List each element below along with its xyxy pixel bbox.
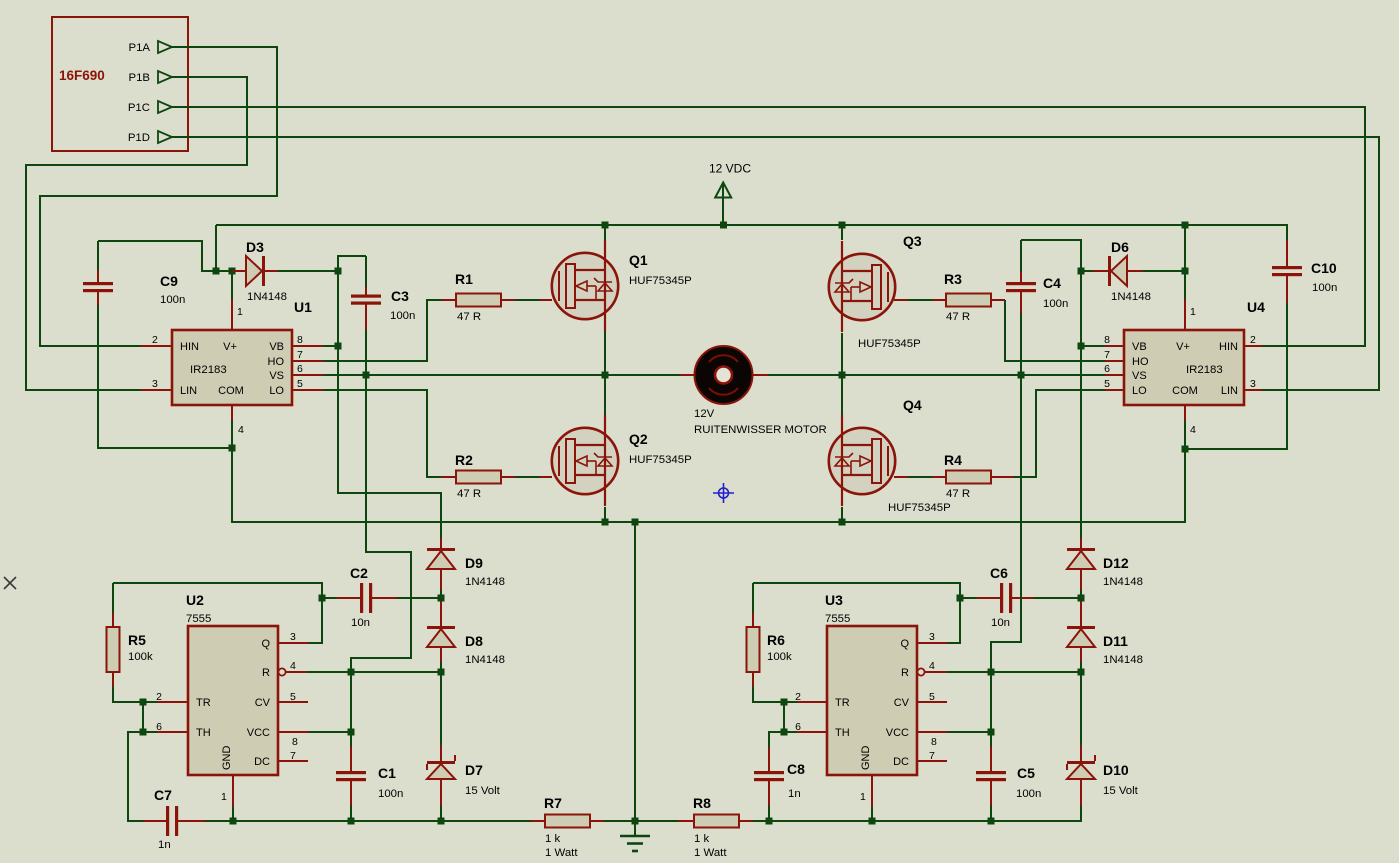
diode D9 1N4148 xyxy=(440,538,442,549)
resistor R2 47R xyxy=(441,476,456,478)
wire U1 COM down xyxy=(231,420,233,448)
svg-text:1 k: 1 k xyxy=(694,833,709,845)
svg-text:7555: 7555 xyxy=(186,613,211,625)
svg-text:7: 7 xyxy=(929,750,935,762)
svg-text:D11: D11 xyxy=(1103,633,1128,649)
motor 12V RUITENWISSER MOTOR xyxy=(680,374,694,376)
svg-text:100n: 100n xyxy=(1312,282,1337,294)
junction bottom rail / C1 xyxy=(348,818,355,825)
wire VB right node down to D12 xyxy=(1080,346,1082,538)
junction TR node xyxy=(140,699,147,706)
svg-text:C4: C4 xyxy=(1043,275,1061,291)
zener diode D10 15 Volt xyxy=(1080,745,1082,762)
svg-text:4: 4 xyxy=(929,660,935,672)
resistor R5 100k xyxy=(112,583,114,613)
junction COM node right xyxy=(1182,446,1189,453)
wire D8 anode to reset row xyxy=(440,662,442,672)
capacitor C8 1n xyxy=(768,748,770,772)
svg-text:C5: C5 xyxy=(1017,765,1035,781)
svg-text:8: 8 xyxy=(1104,334,1110,346)
U2 pin 4 R bubble and stub xyxy=(278,668,285,675)
wire R4 right to LO corner xyxy=(1014,390,1105,477)
wire supply node vertical xyxy=(350,658,352,732)
diode D11 1N4148 xyxy=(1080,602,1082,627)
wire U2 GND to bottom rail xyxy=(232,807,234,821)
svg-text:1n: 1n xyxy=(788,788,801,800)
svg-text:LIN: LIN xyxy=(180,385,197,397)
svg-text:8: 8 xyxy=(297,334,303,346)
wire Q3 source to motor node B xyxy=(841,333,843,375)
svg-text:U1: U1 xyxy=(294,299,312,315)
U3 pin 3 Q stub xyxy=(917,642,947,644)
U3 pin 1 GND stub xyxy=(871,775,873,807)
wire D6 anode to V+ branch xyxy=(1143,270,1185,272)
U3 pin 8 VCC stub xyxy=(917,731,947,733)
wire U3 reset row xyxy=(947,671,1081,673)
svg-text:47 R: 47 R xyxy=(457,311,481,323)
svg-text:Q4: Q4 xyxy=(903,397,922,413)
svg-text:16F690: 16F690 xyxy=(59,68,105,83)
svg-text:1: 1 xyxy=(221,791,227,803)
wire D3 cathode to VB node xyxy=(278,270,338,272)
svg-text:D12: D12 xyxy=(1103,555,1129,571)
wire VS branch down to 7555 supply xyxy=(351,375,411,672)
svg-text:4: 4 xyxy=(238,424,244,436)
Q1 gate stub xyxy=(540,299,552,301)
junction bottom rail / C8 xyxy=(766,818,773,825)
svg-text:8: 8 xyxy=(931,736,937,748)
svg-text:10n: 10n xyxy=(351,617,370,629)
diode D3 1N4148 xyxy=(232,270,246,272)
U4 pin 6 VS stub xyxy=(1105,374,1124,376)
wire U2 reset row xyxy=(307,671,441,673)
svg-text:1N4148: 1N4148 xyxy=(1103,576,1143,588)
svg-text:HO: HO xyxy=(268,356,285,368)
capacitor C2 10n xyxy=(321,583,323,643)
U2 pin 6 TH stub xyxy=(157,731,188,733)
svg-text:R4: R4 xyxy=(944,452,962,468)
svg-text:D8: D8 xyxy=(465,633,483,649)
svg-text:LO: LO xyxy=(1132,385,1147,397)
wire TR to R5 bottom xyxy=(143,701,157,703)
junction node B / bridge right mid xyxy=(839,372,846,379)
junction pump node left xyxy=(438,595,445,602)
junction COM bus / Q2 source xyxy=(602,519,609,526)
svg-text:100n: 100n xyxy=(378,788,403,800)
wire node VCC1 to D3 xyxy=(216,270,232,272)
svg-text:C8: C8 xyxy=(787,761,805,777)
svg-text:P1D: P1D xyxy=(128,132,150,144)
junction 12V bus / U4 V+ branch xyxy=(1182,222,1189,229)
junction COM node left xyxy=(229,445,236,452)
wire U3 Q to pump cap C6 xyxy=(753,583,960,643)
wire R7 to ground node xyxy=(604,820,635,822)
capacitor C10 100n xyxy=(1286,240,1288,266)
U1 pin 4 COM stub xyxy=(231,405,233,420)
svg-text:HIN: HIN xyxy=(180,341,199,353)
svg-text:VCC: VCC xyxy=(886,727,909,739)
svg-text:4: 4 xyxy=(1190,424,1196,436)
junction reset row right / supply xyxy=(988,669,995,676)
resistor R6 100k xyxy=(752,583,754,613)
svg-text:3: 3 xyxy=(929,631,935,643)
U2 pin 7 DC stub xyxy=(278,760,308,762)
junction Q node / C2 left xyxy=(319,595,326,602)
svg-text:C9: C9 xyxy=(160,273,178,289)
junction VS row / C4 xyxy=(1018,372,1025,379)
U1 pin 6 VS stub xyxy=(292,374,323,376)
svg-text:100n: 100n xyxy=(160,294,185,306)
wire C9 top loop to node VCC1 xyxy=(98,241,216,271)
svg-text:U4: U4 xyxy=(1247,299,1265,315)
svg-text:R7: R7 xyxy=(544,795,562,811)
capacitor C7 1n xyxy=(143,820,166,822)
junction ground node xyxy=(632,818,639,825)
svg-text:5: 5 xyxy=(929,691,935,703)
wire P1D to U4 LIN xyxy=(172,137,1379,390)
wire C10 bottom to COM node xyxy=(1185,303,1287,449)
wire reset row right down to D10 xyxy=(1080,672,1082,745)
svg-text:C10: C10 xyxy=(1311,260,1337,276)
junction bottom rail / D7 xyxy=(438,818,445,825)
svg-text:C2: C2 xyxy=(350,565,368,581)
resistor R3 47R xyxy=(894,299,908,301)
svg-text:7: 7 xyxy=(290,750,296,762)
junction VB node at pin 8 xyxy=(335,343,342,350)
svg-text:TR: TR xyxy=(835,697,850,709)
junction 12V bus / Q1 drain xyxy=(602,222,609,229)
wire U2 Q to pump cap C2 xyxy=(113,583,322,643)
svg-text:1N4148: 1N4148 xyxy=(1111,291,1151,303)
diode D8 1N4148 xyxy=(440,602,442,627)
wire R6 bottom to TR node xyxy=(753,687,784,702)
junction Q node / C6 left xyxy=(957,595,964,602)
svg-text:2: 2 xyxy=(152,334,158,346)
diode D12 1N4148 xyxy=(1080,538,1082,549)
U4 pin 3 LIN stub xyxy=(1244,389,1262,391)
U4 pin 4 COM stub xyxy=(1184,405,1186,420)
junction TH node right xyxy=(781,729,788,736)
svg-text:5: 5 xyxy=(1104,378,1110,390)
svg-text:D6: D6 xyxy=(1111,239,1129,255)
wire U1 HO to R1 xyxy=(323,300,441,361)
svg-text:47 R: 47 R xyxy=(457,488,481,500)
svg-text:VS: VS xyxy=(1132,370,1147,382)
wire R2 to Q2 gate xyxy=(515,476,540,478)
resistor R1 47R xyxy=(441,299,456,301)
wire U3 VCC to supply node xyxy=(947,731,991,733)
wire U1 LO to R2 xyxy=(323,390,441,477)
svg-text:VB: VB xyxy=(269,341,284,353)
svg-text:C6: C6 xyxy=(990,565,1008,581)
svg-text:4: 4 xyxy=(290,660,296,672)
resistor R7 1k 1Watt xyxy=(531,820,545,822)
junction VB right node xyxy=(1078,343,1085,350)
svg-text:47 R: 47 R xyxy=(946,311,970,323)
svg-text:P1A: P1A xyxy=(128,42,150,54)
U4 pin 5 LO stub xyxy=(1105,389,1124,391)
capacitor C6 10n xyxy=(959,583,961,643)
svg-text:IR2183: IR2183 xyxy=(190,364,227,376)
junction bottom rail / U3 GND xyxy=(869,818,876,825)
svg-text:V+: V+ xyxy=(1176,341,1190,353)
resistor R4 47R xyxy=(894,476,908,478)
wire C7 to U2 GND xyxy=(205,820,233,822)
svg-text:1N4148: 1N4148 xyxy=(1103,654,1143,666)
svg-text:COM: COM xyxy=(1172,385,1198,397)
capacitor C5 100n xyxy=(990,672,992,732)
power symbol 12 VDC xyxy=(722,183,724,225)
svg-text:P1C: P1C xyxy=(128,102,150,114)
svg-text:VS: VS xyxy=(269,370,284,382)
svg-text:HUF75345P: HUF75345P xyxy=(888,502,951,514)
svg-text:TH: TH xyxy=(196,727,211,739)
svg-text:C7: C7 xyxy=(154,787,172,803)
svg-text:D9: D9 xyxy=(465,555,483,571)
svg-text:TH: TH xyxy=(835,727,850,739)
U3 pin 2 TR stub xyxy=(797,701,827,703)
wire 12V top bus xyxy=(216,225,1287,240)
svg-text:C3: C3 xyxy=(391,288,409,304)
svg-text:GND: GND xyxy=(221,746,233,771)
U3 pin 6 TH stub xyxy=(797,731,827,733)
svg-text:HIN: HIN xyxy=(1219,341,1238,353)
svg-text:CV: CV xyxy=(255,697,271,709)
junction D6 node xyxy=(1078,268,1085,275)
svg-text:D7: D7 xyxy=(465,762,483,778)
wire C4 bottom to VS row xyxy=(1020,313,1022,375)
junction node VCC1 left xyxy=(213,268,220,275)
U1 pin 7 HO stub xyxy=(292,360,323,362)
svg-text:100n: 100n xyxy=(1016,788,1041,800)
svg-text:R8: R8 xyxy=(693,795,711,811)
wire D11 anode to reset row right xyxy=(1080,662,1082,672)
junction bottom rail / U2 GND xyxy=(230,818,237,825)
wire U4 VB to VB right node xyxy=(1081,345,1105,347)
svg-text:LO: LO xyxy=(269,385,284,397)
svg-text:DC: DC xyxy=(893,756,909,768)
wire TH node to C7 xyxy=(128,732,143,821)
junction reset row / D8 xyxy=(438,669,445,676)
wire C1 bottom to rail xyxy=(350,806,352,821)
svg-text:R5: R5 xyxy=(128,632,146,648)
driver IC U1 IR2183 xyxy=(231,271,233,299)
junction VS row / C3 xyxy=(363,372,370,379)
wire C6 right to pump node xyxy=(1034,597,1081,599)
svg-text:1N4148: 1N4148 xyxy=(465,654,505,666)
wire R3 to U4 HO xyxy=(991,299,1005,301)
svg-text:R3: R3 xyxy=(944,271,962,287)
U3 pin 4 R bubble and stub xyxy=(917,668,924,675)
svg-text:V+: V+ xyxy=(223,341,237,353)
junction COM bus / Q4 source xyxy=(839,519,846,526)
svg-text:COM: COM xyxy=(218,385,244,397)
svg-text:15 Volt: 15 Volt xyxy=(465,785,501,797)
svg-text:R: R xyxy=(262,667,270,679)
svg-text:Q2: Q2 xyxy=(629,431,648,447)
svg-text:RUITENWISSER MOTOR: RUITENWISSER MOTOR xyxy=(694,424,827,436)
diode D6 1N4148 xyxy=(1081,270,1093,272)
wire R3 right to HO corner xyxy=(1005,300,1105,361)
svg-text:1 Watt: 1 Watt xyxy=(694,847,727,859)
wire U3 GND to bottom rail xyxy=(871,807,873,821)
wire Q1 source to motor node A xyxy=(604,331,606,375)
capacitor C9 100n xyxy=(97,241,99,270)
wire C2 right to pump node xyxy=(397,597,441,599)
junction VB node top xyxy=(335,268,342,275)
svg-text:1N4148: 1N4148 xyxy=(465,576,505,588)
svg-text:5: 5 xyxy=(297,378,303,390)
svg-text:7: 7 xyxy=(1104,349,1110,361)
wire R4 to U4 LO stub xyxy=(991,476,1014,478)
wire VB node down to pin 8 row xyxy=(337,271,339,346)
wire U1 VB to VB node xyxy=(323,345,338,347)
wire P1C to U4 HIN xyxy=(172,107,1365,346)
svg-text:DC: DC xyxy=(254,756,270,768)
svg-text:HUF75345P: HUF75345P xyxy=(858,338,921,350)
svg-text:47 R: 47 R xyxy=(946,488,970,500)
svg-text:2: 2 xyxy=(1250,334,1256,346)
U2 pin 3 Q stub xyxy=(278,642,308,644)
wire C3 top loop to VB node xyxy=(338,256,366,271)
junction reset row / supply xyxy=(348,669,355,676)
wire VS row U1 to motor xyxy=(323,374,680,376)
wire VS right branch down to 7555 supply xyxy=(991,375,1021,672)
wire C9 bottom to COM node xyxy=(98,305,232,448)
wire TH to TR node xyxy=(143,702,157,732)
wire bottom rail right xyxy=(753,806,1081,821)
junction TH node xyxy=(140,729,147,736)
svg-text:VCC: VCC xyxy=(247,727,270,739)
junction U1 V+ branch xyxy=(229,268,236,275)
wire Q3 drain from bus xyxy=(841,225,843,240)
wire D9 anode to pump node xyxy=(440,590,442,602)
wire TR to R6 bottom xyxy=(784,701,797,703)
svg-text:U2: U2 xyxy=(186,592,204,608)
ground symbol xyxy=(634,821,636,836)
wire ground branch vertical xyxy=(634,522,636,821)
U3 pin 5 CV stub xyxy=(917,701,947,703)
origin marker crosshair xyxy=(719,488,729,498)
svg-text:6: 6 xyxy=(1104,363,1110,375)
wire COM bus xyxy=(232,448,1185,522)
svg-text:6: 6 xyxy=(156,721,162,733)
wire R1 to Q1 gate xyxy=(515,299,540,301)
zener diode D7 15 Volt xyxy=(440,745,442,762)
svg-text:3: 3 xyxy=(152,378,158,390)
driver IC U4 IR2183 xyxy=(1184,225,1186,299)
svg-text:R6: R6 xyxy=(767,632,785,648)
U3 pin 7 DC stub xyxy=(917,760,947,762)
junction supply right / VCC xyxy=(988,729,995,736)
svg-text:3: 3 xyxy=(1250,378,1256,390)
capacitor C4 100n xyxy=(1020,240,1022,272)
U2 pin 8 VCC stub xyxy=(278,731,308,733)
junction bottom rail / C5 xyxy=(988,818,995,825)
svg-text:1 k: 1 k xyxy=(545,833,560,845)
svg-text:100k: 100k xyxy=(128,651,153,663)
svg-text:100n: 100n xyxy=(1043,298,1068,310)
wire Q2 drain from node A xyxy=(604,375,606,415)
cursor x marker xyxy=(4,577,16,589)
junction V+ branch right xyxy=(1182,268,1189,275)
svg-text:15 Volt: 15 Volt xyxy=(1103,785,1139,797)
svg-text:D10: D10 xyxy=(1103,762,1129,778)
svg-text:IR2183: IR2183 xyxy=(1186,364,1223,376)
svg-text:Q: Q xyxy=(900,638,909,650)
svg-text:1: 1 xyxy=(1190,306,1196,318)
svg-text:6: 6 xyxy=(297,363,303,375)
svg-text:GND: GND xyxy=(860,746,872,771)
wire C4 top loop xyxy=(1021,240,1081,346)
U1 pin 8 VB stub xyxy=(292,345,323,347)
wire P1A to U1 HIN xyxy=(40,47,277,346)
svg-text:100k: 100k xyxy=(767,651,792,663)
wire TH node to C8 top xyxy=(769,732,784,748)
svg-text:C1: C1 xyxy=(378,765,396,781)
wire Q2 source to COM bus xyxy=(604,507,606,522)
U2 pin 5 CV stub xyxy=(278,701,308,703)
svg-text:HUF75345P: HUF75345P xyxy=(629,275,692,287)
svg-text:5: 5 xyxy=(290,691,296,703)
Q2 gate stub xyxy=(540,476,552,478)
svg-text:1: 1 xyxy=(860,791,866,803)
svg-text:TR: TR xyxy=(196,697,211,709)
svg-text:1: 1 xyxy=(237,306,243,318)
svg-text:HO: HO xyxy=(1132,356,1149,368)
U2 pin 2 TR stub xyxy=(157,701,188,703)
capacitor C1 100n xyxy=(350,732,352,746)
junction 12V bus / power pin xyxy=(720,222,727,229)
svg-text:HUF75345P: HUF75345P xyxy=(629,454,692,466)
U4 pin 2 HIN stub xyxy=(1244,345,1262,347)
svg-text:3: 3 xyxy=(290,631,296,643)
wire D12 anode to pump node right xyxy=(1080,590,1082,602)
svg-text:10n: 10n xyxy=(991,617,1010,629)
wire motor to VS row U4 xyxy=(768,374,1105,376)
svg-text:Q3: Q3 xyxy=(903,233,922,249)
wire C5 bottom to rail xyxy=(990,806,992,821)
svg-text:7: 7 xyxy=(297,349,303,361)
wire 12V bus left drop to D3 anode xyxy=(215,225,217,271)
junction TR node right xyxy=(781,699,788,706)
U2 pin 1 GND stub xyxy=(232,775,234,807)
wire U4 COM down xyxy=(1184,420,1186,449)
svg-text:LIN: LIN xyxy=(1221,385,1238,397)
svg-text:12V: 12V xyxy=(694,408,715,420)
U4 pin 8 VB stub xyxy=(1105,345,1124,347)
svg-text:8: 8 xyxy=(292,736,298,748)
wire bottom rail left xyxy=(233,820,531,822)
svg-text:1n: 1n xyxy=(158,839,171,851)
wire TH to TR node right xyxy=(784,702,797,732)
svg-text:R2: R2 xyxy=(455,452,473,468)
wire R5 bottom to TR node xyxy=(113,687,143,702)
U1 pin 5 LO stub xyxy=(292,389,323,391)
wire Q1 drain from bus xyxy=(604,225,606,240)
wire Q4 drain from node B xyxy=(841,375,843,415)
wire U2 VCC to supply node xyxy=(308,731,351,733)
junction 12V bus / Q3 drain xyxy=(839,222,846,229)
junction node A / bridge left mid xyxy=(602,372,609,379)
junction COM bus / ground branch xyxy=(632,519,639,526)
wire P1B to U1 LIN xyxy=(26,77,247,390)
svg-text:12 VDC: 12 VDC xyxy=(709,162,751,176)
svg-text:P1B: P1B xyxy=(128,72,150,84)
svg-text:R1: R1 xyxy=(455,271,473,287)
wire VB node down to D9 cathode xyxy=(338,346,441,538)
microcontroller 16F690 box xyxy=(52,17,188,151)
